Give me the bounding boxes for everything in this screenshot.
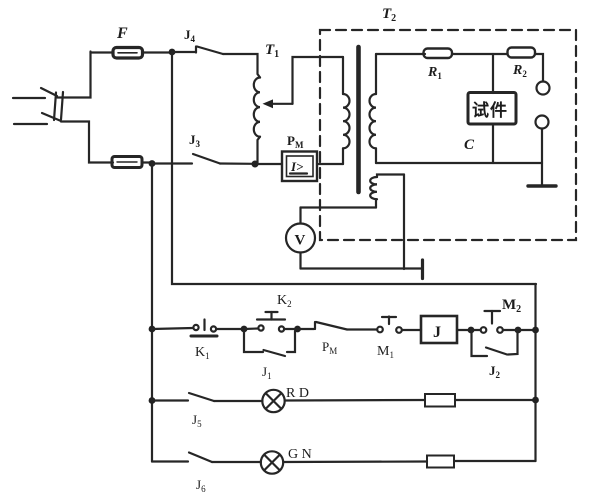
wire row1 left	[152, 328, 193, 329]
svg-text:T2: T2	[382, 6, 396, 24]
svg-text:M2: M2	[502, 297, 521, 315]
node I2 (right bus row2)	[532, 397, 539, 404]
wire J to node G	[457, 329, 471, 331]
svg-text:K1: K1	[195, 345, 210, 361]
plug P (mains plug and socket)	[13, 88, 63, 124]
label J6	[196, 477, 206, 494]
svg-text:J1: J1	[262, 364, 272, 381]
wire M2 to right bus	[503, 329, 536, 331]
svg-text:T1: T1	[265, 42, 279, 60]
switch J3	[152, 154, 253, 164]
bottom wire of HV loop	[376, 162, 542, 164]
svg-text:K2: K2	[277, 293, 292, 309]
label PM	[287, 133, 304, 150]
label PM contact	[322, 339, 337, 356]
svg-text:J4: J4	[184, 27, 196, 44]
lower fuse	[112, 157, 152, 168]
wire plug top to fuse F	[57, 52, 91, 98]
node H	[515, 327, 522, 334]
label R2	[512, 63, 527, 79]
svg-text:V: V	[295, 233, 306, 249]
lamp RD	[262, 390, 284, 412]
node B (junction lower wire)	[149, 160, 156, 167]
contact J1 (parallel with K2)	[244, 329, 298, 356]
svg-text:R D: R D	[286, 386, 309, 401]
wire V bottom row	[301, 267, 423, 269]
wire M1 to J coil	[402, 329, 421, 331]
sphere gap electrode upper	[537, 82, 550, 95]
label J3	[189, 132, 201, 149]
svg-text:J2: J2	[489, 363, 501, 380]
transformer T2 tertiary winding	[370, 175, 404, 208]
label R1	[427, 65, 442, 81]
svg-text:M1: M1	[377, 344, 394, 360]
node D (left bus row1)	[149, 326, 156, 333]
svg-text:G N: G N	[288, 447, 312, 462]
relay coil PM box	[258, 152, 317, 182]
lamp GN	[261, 451, 283, 473]
label K1	[195, 345, 210, 361]
node D2 (left bus row2)	[149, 397, 156, 404]
wire left bus from node B down	[151, 164, 153, 462]
svg-text:J6: J6	[196, 477, 206, 494]
switch J5	[152, 393, 263, 401]
label J5	[192, 412, 202, 429]
label M2	[502, 297, 521, 315]
label T2	[382, 6, 396, 24]
dashed enclosure T2	[320, 30, 576, 240]
pushbutton M2	[471, 311, 503, 333]
wire RD to resistor	[285, 399, 425, 402]
label C	[464, 137, 475, 153]
earth terminal bar	[421, 260, 424, 279]
wire V top to tertiary	[301, 206, 377, 208]
label J1	[262, 364, 272, 381]
node F2	[294, 326, 301, 333]
voltmeter V	[286, 208, 315, 269]
contact J2 (parallel with M2)	[472, 331, 518, 356]
transformer T2 secondary winding	[370, 54, 377, 163]
svg-text:I>: I>	[290, 159, 304, 174]
transformer T1 winding	[254, 78, 260, 164]
transformer T2 core	[356, 47, 361, 192]
svg-text:PM: PM	[322, 339, 337, 356]
wire right bus	[534, 284, 536, 461]
wire secondary top to R1	[376, 53, 425, 55]
node C1 (T1 bottom junction)	[252, 161, 259, 168]
node G	[468, 327, 475, 334]
switch J4	[172, 47, 260, 78]
fuse F	[91, 48, 173, 59]
pushbutton K2 (NC)	[244, 312, 285, 332]
label F	[116, 25, 128, 42]
wire K1 to node E	[217, 328, 245, 330]
svg-text:J5: J5	[192, 412, 202, 429]
svg-text:C: C	[464, 137, 475, 153]
resistor R1	[424, 49, 508, 59]
test object box (shi jian)	[468, 54, 516, 163]
label J2	[489, 363, 501, 380]
wire plug bottom to lower fuse	[61, 122, 113, 163]
svg-text:J3: J3	[189, 132, 201, 149]
resistor R2	[508, 48, 544, 82]
pushbutton M1	[377, 317, 402, 333]
label GN	[288, 447, 312, 462]
label T1	[265, 42, 279, 60]
label RD	[286, 386, 309, 401]
label M1	[377, 344, 394, 360]
relay coil J box	[421, 316, 457, 343]
svg-text:PM: PM	[287, 133, 304, 150]
tap arrow on T1	[263, 57, 344, 108]
contact PM	[298, 322, 378, 330]
resistor (RD row)	[425, 394, 536, 407]
svg-text:J: J	[433, 324, 441, 341]
sphere gap electrode lower	[536, 116, 549, 164]
ground (earth)	[528, 163, 556, 186]
svg-text:R1: R1	[427, 65, 442, 81]
svg-text:R2: R2	[512, 63, 527, 79]
label K2	[277, 293, 292, 309]
wire left bus from node A down	[172, 52, 536, 284]
label J4	[184, 27, 196, 44]
transformer T2 primary winding	[343, 57, 350, 164]
resistor (GN row)	[427, 456, 536, 468]
switch J6	[152, 453, 261, 463]
node E	[241, 326, 248, 333]
node I (right bus row1)	[532, 327, 539, 334]
svg-text:F: F	[116, 25, 128, 42]
node A (junction after F)	[169, 49, 176, 56]
pushbutton K1	[191, 320, 217, 337]
wire tertiary top to earth bar	[403, 175, 405, 270]
svg-text:试件: 试件	[472, 100, 508, 120]
wire GN to resistor	[283, 460, 427, 463]
wire PM to T2 primary	[317, 163, 343, 165]
